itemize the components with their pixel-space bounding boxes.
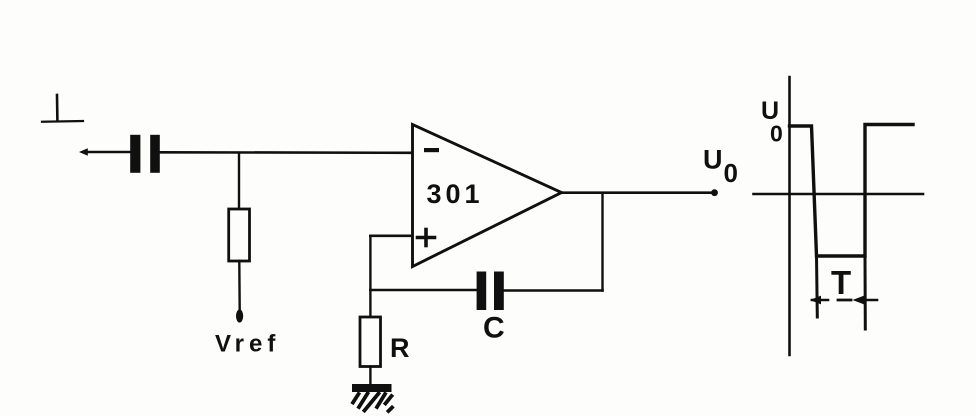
dimension arrow left — [810, 296, 828, 305]
wire op-amp output — [562, 191, 715, 194]
wire input to C1 — [84, 151, 130, 154]
label U0 (output) — [703, 145, 738, 189]
wire R to ground — [369, 367, 371, 385]
label U0 (graph axis) — [761, 97, 783, 147]
svg-text:Vref: Vref — [215, 331, 280, 358]
op-amp U1 (301) — [413, 125, 562, 267]
ground — [352, 384, 392, 411]
capacitor C1 (input) — [130, 135, 160, 173]
input terminal — [79, 148, 88, 155]
svg-text:C: C — [483, 312, 505, 345]
svg-text:0: 0 — [770, 121, 783, 147]
trigger pulse symbol — [42, 95, 83, 122]
dimension extension line right — [864, 256, 867, 329]
wire + input down to feedback node — [369, 236, 371, 290]
op-amp minus sign — [424, 148, 439, 152]
resistor R — [360, 317, 381, 367]
graph horizontal axis — [754, 193, 924, 196]
resistor R1 (to Vref) — [229, 209, 250, 261]
wire op-amp + input — [370, 235, 412, 238]
wire R1 to Vref terminal — [238, 261, 241, 310]
output terminal dot — [711, 189, 718, 196]
svg-text:U: U — [703, 145, 723, 175]
waveform trace — [790, 125, 914, 257]
dimension extension line left — [815, 256, 819, 317]
wire C to feedback riser — [504, 289, 603, 292]
node A (junction above resistor) — [238, 153, 240, 209]
wire feedback node to capacitor C — [370, 289, 476, 292]
capacitor C (feedback) — [477, 272, 504, 311]
svg-text:R: R — [390, 333, 410, 363]
dimension arrow right — [853, 295, 878, 304]
Vref terminal dot — [236, 309, 243, 322]
graph vertical axis — [788, 77, 791, 355]
wire feedback riser — [601, 193, 603, 291]
op-amp plus sign — [418, 230, 435, 246]
wire feedback node down to resistor R — [369, 290, 371, 317]
svg-text:0: 0 — [724, 158, 738, 188]
svg-text:301: 301 — [427, 179, 484, 209]
svg-text:T: T — [831, 264, 851, 301]
wire C1 to op-amp inverting input — [160, 151, 412, 154]
dimension dashes — [838, 299, 851, 302]
